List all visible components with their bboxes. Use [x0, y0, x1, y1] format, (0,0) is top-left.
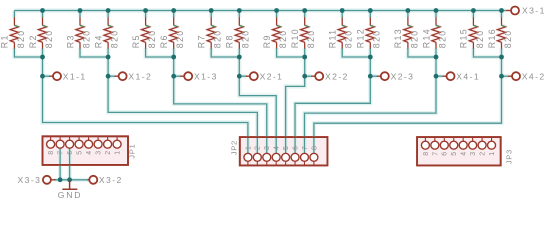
- svg-text:R2: R2: [28, 34, 38, 48]
- svg-text:8: 8: [48, 151, 55, 155]
- svg-text:820: 820: [241, 29, 251, 48]
- connector JP1 pin numbers 8-7-6-5-4-3-2-1: [48, 151, 122, 155]
- svg-text:5: 5: [451, 152, 458, 156]
- svg-text:X2-3: X2-3: [391, 71, 415, 81]
- wire route X2-2 to JP2 pin 5: [286, 76, 305, 153]
- wire pair 8 even drop: [501, 48, 503, 76]
- wire bus to R5 top: [145, 11, 147, 18]
- svg-text:R14: R14: [421, 28, 431, 48]
- wire bus to R3 top: [79, 11, 81, 18]
- connector JP3 border: [417, 137, 501, 165]
- svg-text:820: 820: [475, 29, 485, 48]
- wire pair 4 even drop: [238, 48, 240, 76]
- wire bus to R14 top: [435, 11, 437, 18]
- pin X3-2: [88, 175, 123, 185]
- svg-text:6: 6: [67, 151, 74, 155]
- svg-text:X3-3: X3-3: [18, 175, 42, 185]
- svg-text:X1-1: X1-1: [63, 71, 87, 81]
- svg-text:X3-2: X3-2: [99, 175, 123, 185]
- svg-text:R15: R15: [459, 28, 469, 48]
- connector JP3 pin numbers 8-7-6-5-4-3-2-1: [423, 152, 496, 156]
- svg-text:820: 820: [503, 29, 513, 48]
- connector JP1 pin circles: [47, 136, 122, 148]
- wire pair 7 even drop: [435, 48, 437, 76]
- svg-text:R3: R3: [65, 34, 75, 48]
- wire bus to R12 top: [369, 11, 371, 18]
- svg-text:820: 820: [81, 29, 91, 48]
- wire bus to R4 top: [107, 11, 109, 18]
- svg-text:4: 4: [274, 146, 281, 150]
- wire JP1 pin7 to GND rail: [59, 148, 61, 180]
- resistor R15 (820 ohm): [469, 17, 477, 48]
- pin X2-2: [311, 71, 349, 81]
- resistor R11 (820 ohm): [338, 17, 346, 48]
- svg-text:6: 6: [292, 146, 299, 150]
- connector JP3 pin circles: [421, 137, 495, 149]
- resistor R5 (820 ohm): [142, 17, 150, 48]
- svg-text:820: 820: [16, 29, 26, 48]
- wire stub to pin X2-3: [370, 75, 377, 77]
- wire pair 3 even drop: [173, 48, 175, 76]
- pin X4-1: [443, 71, 481, 81]
- wire stub to pin X4-2: [502, 75, 509, 77]
- wire bus to R10 top: [304, 11, 306, 18]
- wire stub to pin X2-2: [305, 75, 312, 77]
- svg-text:7: 7: [432, 152, 439, 156]
- svg-text:820: 820: [372, 29, 382, 48]
- svg-text:X1-2: X1-2: [128, 71, 152, 81]
- svg-text:4: 4: [461, 152, 468, 156]
- svg-text:2: 2: [255, 146, 262, 150]
- junction dots at resistor pair bottoms: [40, 55, 504, 60]
- wire X3-3 to X3-2 net: [54, 179, 89, 181]
- wire bus to R11 top: [341, 11, 343, 18]
- svg-text:820: 820: [278, 29, 288, 48]
- wire stub to pin X1-3: [174, 75, 181, 77]
- svg-text:R4: R4: [93, 34, 103, 48]
- wire pair 7 bottom join: [408, 48, 436, 57]
- wire bus to R15 top: [472, 11, 474, 18]
- wire route X4-1 to JP2 pin 7: [304, 76, 436, 153]
- wire bus to R2 top: [42, 11, 44, 18]
- pin X4-2: [508, 71, 546, 81]
- pin X3-1: [506, 6, 546, 16]
- wire stub to pin X4-1: [436, 75, 443, 77]
- pin X2-1: [246, 71, 284, 81]
- wire pair 2 bottom join: [80, 48, 108, 57]
- wire pair 2 even drop: [107, 48, 109, 76]
- svg-text:820: 820: [213, 29, 223, 48]
- svg-text:X1-3: X1-3: [194, 71, 218, 81]
- svg-text:R10: R10: [290, 28, 300, 48]
- resistor R13 (820 ohm): [404, 17, 412, 48]
- svg-text:X3-1: X3-1: [522, 6, 546, 16]
- wire bus to R1 top: [13, 11, 15, 18]
- wire route X4-2 to JP2 pin 8: [314, 76, 502, 153]
- wire pair 4 bottom join: [211, 48, 239, 57]
- resistor R12 (820 ohm): [366, 17, 374, 48]
- connector JP3 body fill: [417, 137, 501, 165]
- wire bus to R7 top: [210, 11, 212, 18]
- junction dots on pin row: [40, 74, 504, 79]
- svg-text:X2-1: X2-1: [260, 71, 284, 81]
- svg-text:R9: R9: [262, 34, 272, 48]
- connector JP1 body fill: [43, 136, 129, 165]
- connector JP1 border: [43, 136, 129, 165]
- connector JP2 pin circles: [244, 153, 318, 165]
- resistor R10 (820 ohm): [301, 17, 309, 48]
- resistor R6 (820 ohm): [170, 17, 178, 48]
- wire route X1-2 to JP2 pin 2: [108, 76, 257, 153]
- svg-text:R13: R13: [393, 28, 403, 48]
- resistor R1 (820 ohm): [10, 17, 18, 48]
- svg-text:R1: R1: [0, 34, 10, 48]
- svg-text:R12: R12: [356, 28, 366, 48]
- svg-text:R8: R8: [225, 34, 235, 48]
- svg-text:1: 1: [245, 146, 252, 150]
- svg-text:7: 7: [302, 146, 309, 150]
- resistor R7 (820 ohm): [207, 17, 215, 48]
- svg-text:3: 3: [264, 146, 271, 150]
- wire pair 1 bottom join: [14, 48, 42, 57]
- wire JP1 pin6 to GND rail: [69, 148, 71, 180]
- wire route X2-1 to JP2 pin 4: [239, 76, 276, 153]
- pin X1-2: [115, 71, 153, 81]
- wire top bus net: [14, 10, 506, 12]
- wire pair 5 even drop: [304, 48, 306, 76]
- svg-text:1: 1: [489, 152, 496, 156]
- wire bus to R16 top: [501, 11, 503, 18]
- wire pair 8 bottom join: [473, 48, 501, 57]
- wire pair 5 bottom join: [277, 48, 305, 57]
- svg-text:JP3: JP3: [505, 149, 514, 164]
- svg-text:R7: R7: [197, 34, 207, 48]
- svg-text:6: 6: [442, 152, 449, 156]
- svg-text:5: 5: [283, 146, 290, 150]
- pin X1-1: [49, 71, 87, 81]
- svg-text:8: 8: [311, 146, 318, 150]
- wire pair 6 even drop: [369, 48, 371, 76]
- svg-text:820: 820: [344, 29, 354, 48]
- resistor R8 (820 ohm): [235, 17, 243, 48]
- svg-text:R6: R6: [159, 34, 169, 48]
- svg-text:JP1: JP1: [128, 144, 137, 159]
- svg-text:2: 2: [105, 151, 112, 155]
- pin X3-3: [18, 175, 56, 185]
- svg-text:3: 3: [96, 151, 103, 155]
- svg-text:820: 820: [147, 29, 157, 48]
- wire route X1-3 to JP2 pin 3: [174, 76, 267, 153]
- svg-text:R5: R5: [131, 34, 141, 48]
- svg-text:X4-2: X4-2: [522, 71, 546, 81]
- junction dots on GND rail: [58, 177, 72, 182]
- svg-text:820: 820: [409, 29, 419, 48]
- wire pair 1 even drop: [42, 48, 44, 76]
- wire bus to R13 top: [407, 11, 409, 18]
- svg-text:GND: GND: [58, 190, 83, 200]
- junction dots on top bus: [40, 8, 504, 13]
- svg-text:820: 820: [306, 29, 316, 48]
- svg-text:8: 8: [423, 152, 430, 156]
- svg-text:X4-1: X4-1: [456, 71, 480, 81]
- svg-text:JP2: JP2: [230, 140, 239, 155]
- wire route X1-1 to JP2 pin 1: [43, 76, 248, 153]
- resistor R16 (820 ohm): [497, 17, 505, 48]
- resistor R4 (820 ohm): [104, 17, 112, 48]
- wire glow layer: [14, 11, 508, 180]
- svg-text:5: 5: [77, 151, 84, 155]
- svg-text:7: 7: [58, 151, 65, 155]
- svg-text:820: 820: [175, 29, 185, 48]
- resistor R14 (820 ohm): [432, 17, 440, 48]
- wire pair 3 bottom join: [146, 48, 174, 57]
- resistor R9 (820 ohm): [273, 17, 281, 48]
- svg-text:4: 4: [86, 151, 93, 155]
- svg-text:820: 820: [110, 29, 120, 48]
- wire pair 6 bottom join: [342, 48, 370, 57]
- wire stub to pin X2-1: [239, 75, 246, 77]
- svg-text:X2-2: X2-2: [325, 71, 349, 81]
- svg-text:R16: R16: [487, 28, 497, 48]
- svg-text:3: 3: [470, 152, 477, 156]
- wire route X2-3 to JP2 pin 6: [295, 76, 370, 153]
- resistor R2 (820 ohm): [38, 17, 46, 48]
- wire bus to R8 top: [238, 11, 240, 18]
- connector JP2 border: [240, 137, 328, 165]
- svg-text:1: 1: [115, 151, 122, 155]
- wire stub to pin X1-1: [43, 75, 50, 77]
- pin X1-3: [180, 71, 218, 81]
- connector JP2 pin numbers 1-2-3-4-5-6-7-8: [245, 146, 318, 150]
- wire bus to R6 top: [173, 11, 175, 18]
- svg-text:R11: R11: [328, 29, 338, 49]
- pin X2-3: [377, 71, 415, 81]
- svg-text:820: 820: [437, 29, 447, 48]
- connector JP2 body fill: [240, 137, 328, 165]
- svg-text:2: 2: [480, 152, 487, 156]
- svg-text:820: 820: [44, 29, 54, 48]
- wire bus to R9 top: [276, 11, 278, 18]
- wire stub to pin X1-2: [108, 75, 115, 77]
- ground symbol GND: [58, 180, 83, 200]
- resistor R3 (820 ohm): [76, 17, 84, 48]
